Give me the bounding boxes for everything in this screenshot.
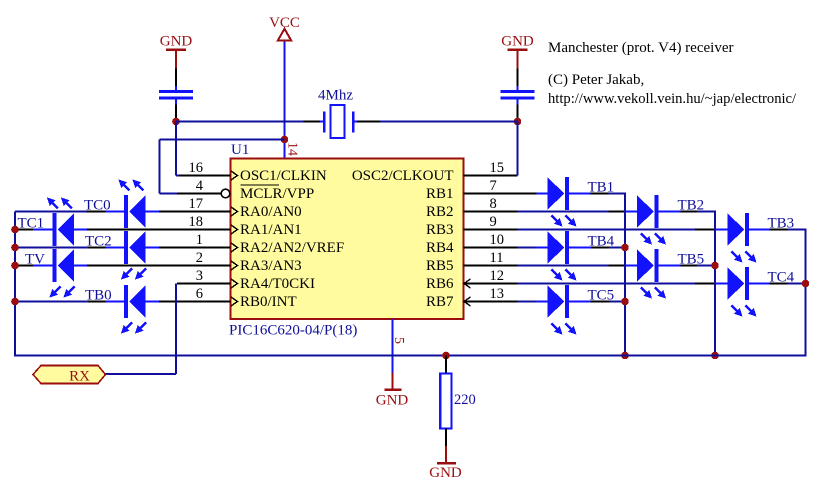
ground GND2 (above C2): [501, 34, 534, 69]
node resistor on bottom bus: [442, 352, 450, 360]
svg-text:Manchester (prot. V4) receiver: Manchester (prot. V4) receiver: [548, 40, 733, 56]
svg-text:RA1/AN1: RA1/AN1: [240, 222, 302, 238]
LED TB1: [548, 177, 568, 210]
wire TB5 to col2 bus: [659, 265, 716, 267]
emission arrows of TC5: [552, 324, 577, 335]
node TC2 on left bus: [11, 244, 19, 252]
svg-text:http://www.vekoll.vein.hu/~jap: http://www.vekoll.vein.hu/~jap/electroni…: [548, 91, 797, 107]
U1 pin 18 stub: [87, 229, 231, 231]
wire OSC2 to crystal node: [517, 122, 519, 176]
wire RB3 to TB3: [518, 229, 728, 231]
wire TB3 to col3 bus: [749, 229, 807, 231]
svg-text:GND: GND: [160, 34, 193, 50]
emission arrows of TB1: [552, 216, 577, 227]
node TC1 on left bus: [11, 226, 19, 234]
svg-text:8: 8: [490, 196, 497, 212]
svg-text:17: 17: [189, 196, 204, 212]
U1 pin 17 stub: [159, 211, 231, 213]
wire RA2 net to TC2: [15, 247, 126, 249]
svg-text:RA3/AN3: RA3/AN3: [240, 258, 302, 274]
emission arrows of TB4: [552, 270, 577, 281]
svg-text:RB2: RB2: [426, 204, 454, 220]
U1 pin 6 stub: [159, 301, 231, 303]
wire TB1 to col1 bus: [569, 193, 626, 195]
svg-text:11: 11: [490, 250, 504, 266]
emission arrows of TC2: [121, 269, 146, 280]
wire RB5 to TB5: [518, 265, 638, 267]
LED TB3: [728, 213, 748, 246]
LED TB0: [126, 285, 146, 318]
node TB5 on col2 bus: [711, 262, 719, 270]
svg-text:5: 5: [391, 337, 406, 344]
svg-text:6: 6: [196, 286, 203, 302]
wire TC2 to U1 RA2: [146, 247, 160, 249]
svg-text:MCLR/VPP: MCLR/VPP: [240, 186, 314, 202]
svg-text:RA0/AN0: RA0/AN0: [240, 204, 302, 220]
U1 pin input mark RA1/AN1: [231, 225, 238, 234]
svg-text:GND: GND: [429, 465, 462, 481]
wire TB4 to col1 bus: [569, 247, 625, 249]
U1 pin input mark RA2/AN2/VREF: [231, 243, 238, 252]
U1 pin 3 stub: [177, 283, 231, 285]
svg-text:7: 7: [490, 178, 497, 194]
node TC5 on col1 bus: [621, 298, 629, 306]
svg-text:(C) Peter Jakab,: (C) Peter Jakab,: [548, 72, 644, 88]
wire RB2 to TB2: [518, 211, 638, 213]
U1 pin 16 stub: [179, 175, 231, 177]
emission arrows of TC0: [119, 180, 144, 191]
LED TB5: [637, 249, 657, 282]
svg-text:14: 14: [285, 142, 300, 156]
svg-text:4: 4: [196, 178, 204, 194]
svg-text:RB4: RB4: [426, 240, 454, 256]
svg-text:16: 16: [189, 160, 204, 176]
wire RB4 to TB4: [518, 247, 548, 249]
wire col2 vertical bus: [714, 212, 716, 356]
node C1/crystal junction: [172, 118, 180, 126]
wire TC5 to col1 bus: [569, 301, 625, 303]
svg-text:OSC1/CLKIN: OSC1/CLKIN: [240, 168, 327, 184]
svg-text:U1: U1: [231, 142, 249, 158]
svg-text:GND: GND: [376, 393, 409, 409]
svg-text:12: 12: [490, 268, 505, 284]
LED TB4: [548, 231, 568, 264]
LED TC0: [126, 195, 146, 228]
IC U1 PIC16C620 body: [231, 159, 464, 320]
U1 pin 7 stub: [464, 193, 537, 195]
LED TC4: [728, 267, 748, 300]
U1 pin input mark RB0/INT: [231, 297, 238, 306]
wire RB7 to TC5: [518, 301, 548, 303]
svg-text:RX: RX: [69, 369, 90, 385]
U1 pin input mark RB7: [464, 297, 471, 306]
wire RA0 net to TC0: [15, 211, 126, 213]
emission arrows of TB3: [732, 252, 757, 263]
svg-text:RB5: RB5: [426, 258, 454, 274]
ground GND4 (below R1): [429, 446, 462, 481]
U1 pin input mark OSC1/CLKIN: [231, 171, 238, 180]
U1 pin input mark RA0/AN0: [231, 207, 238, 216]
U1 pin 10 stub: [464, 247, 518, 249]
U1 pin 15 stub: [464, 175, 518, 177]
LED TC1: [55, 213, 75, 246]
wire TC4 to col3 bus: [749, 283, 807, 285]
wire RB1 to TB1: [537, 193, 548, 195]
wire C2 to node: [517, 105, 519, 122]
power VCC: [269, 15, 300, 41]
wire RB6 to TC4: [518, 283, 728, 285]
wire TC1 to U1 RA1: [74, 229, 159, 231]
node TB4 on col1 bus: [621, 244, 629, 252]
wire col1 vertical bus: [624, 194, 626, 356]
svg-text:RA2/AN2/VREF: RA2/AN2/VREF: [240, 240, 344, 256]
wire left common bus: [14, 212, 446, 357]
U1 pin 9 stub: [464, 229, 518, 231]
wire RA3 net to TV: [16, 265, 55, 267]
svg-text:RB7: RB7: [426, 294, 454, 310]
svg-text:3: 3: [196, 268, 203, 284]
wire C1 down to OSC1: [176, 122, 179, 176]
svg-text:GND: GND: [501, 34, 534, 50]
svg-text:PIC16C620-04/P(18): PIC16C620-04/P(18): [229, 323, 357, 339]
wire crystal net right (X1 to C2): [357, 121, 380, 123]
svg-text:18: 18: [189, 214, 204, 230]
port RX: [33, 366, 106, 385]
wire MCLR net (VCC row): [160, 140, 285, 194]
wire RB0 net to TB0: [15, 301, 126, 303]
node col1 on bottom bus: [621, 352, 629, 360]
node C2/OSC2 junction: [514, 118, 522, 126]
svg-text:9: 9: [490, 214, 497, 230]
svg-text:RB1: RB1: [426, 186, 454, 202]
LED TC5: [548, 285, 568, 318]
svg-text:RB0/INT: RB0/INT: [240, 294, 297, 310]
wire TB2 to col2 bus: [659, 211, 717, 213]
wire col3 vertical bus: [805, 230, 807, 357]
MCLR overline: [241, 184, 280, 186]
emission arrows of TV: [50, 287, 75, 298]
node col2 on bottom bus: [711, 352, 719, 360]
capacitor C1: [159, 86, 193, 105]
wire bus to R1: [445, 356, 447, 374]
svg-text:10: 10: [490, 232, 505, 248]
ground GND1 (above C1): [160, 34, 193, 69]
svg-text:RA4/T0CKI: RA4/T0CKI: [240, 276, 315, 292]
LED TB2: [637, 195, 657, 228]
resistor R1 220: [440, 374, 451, 429]
wire R1 to GND4: [445, 429, 447, 447]
svg-text:220: 220: [454, 392, 476, 408]
svg-text:1: 1: [196, 232, 203, 248]
ground GND3 (U1 pin 5): [376, 373, 409, 409]
svg-text:RB6: RB6: [426, 276, 454, 292]
node VCC/MCLR junction: [281, 136, 289, 144]
wire TB0 to U1 RB0: [146, 301, 160, 303]
capacitor C2: [501, 86, 535, 105]
wire GND2 to C2: [517, 69, 519, 87]
wire bottom bus: [446, 355, 807, 357]
emission arrows of TB5: [641, 288, 666, 299]
wire RA1 net to TC1: [16, 229, 55, 231]
node TC4 on col3 bus: [802, 280, 810, 288]
crystal X1 4Mhz: [318, 88, 357, 139]
svg-text:13: 13: [490, 286, 505, 302]
U1 pin 8 stub: [464, 211, 518, 213]
U1 MCLR active-low bubble: [221, 189, 230, 198]
U1 pin 1 stub: [159, 247, 231, 249]
U1 pin 11 stub: [464, 265, 518, 267]
U1 pin 13 stub: [464, 301, 518, 303]
emission arrows of TC4: [732, 306, 757, 317]
wire TC0 to U1 RA0: [146, 211, 160, 213]
U1 pin input mark RA3/AN3: [231, 261, 238, 270]
node TB0 on left bus: [11, 298, 19, 306]
emission arrows of TB2: [641, 234, 666, 245]
U1 pin 2 stub: [87, 265, 231, 267]
svg-text:15: 15: [490, 160, 505, 176]
wire U1 pin 5 down: [392, 319, 394, 373]
LED TC2: [126, 231, 146, 264]
wire GND1 to C1: [175, 69, 177, 87]
U1 pin 12 stub: [464, 283, 518, 285]
wire crystal net left (C1 to X1): [176, 121, 304, 123]
wire RA4 to RX port: [106, 284, 177, 375]
node TV on left bus: [11, 262, 19, 270]
svg-text:OSC2/CLKOUT: OSC2/CLKOUT: [352, 168, 454, 184]
wire C1 to node: [175, 105, 177, 122]
emission arrows of TB0: [121, 323, 146, 334]
U1 pin input mark RB6: [464, 279, 471, 288]
svg-text:RB3: RB3: [426, 222, 454, 238]
LED TV: [55, 249, 75, 282]
svg-text:2: 2: [196, 250, 203, 266]
U1 pin 4 stub: [177, 193, 221, 195]
wire VCC to U1 pin 14: [284, 42, 286, 159]
wire TV to U1 RA3: [74, 265, 159, 267]
svg-text:4Mhz: 4Mhz: [318, 88, 353, 104]
emission arrows of TC1: [47, 198, 72, 209]
U1 pin input mark RA4/T0CKI: [231, 279, 238, 288]
